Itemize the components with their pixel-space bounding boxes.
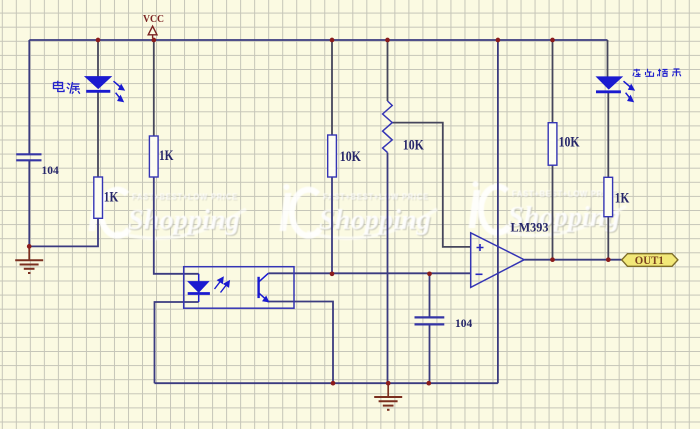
wire R3 column (10K pullup) — [331, 40, 333, 135]
svg-text:1K: 1K — [159, 148, 174, 164]
watermark 1 — [89, 184, 246, 238]
wire cap to ground junction — [28, 161, 30, 246]
svg-text:OUT1: OUT1 — [635, 255, 664, 267]
ground (bottom) — [374, 383, 402, 410]
svg-text:10K: 10K — [340, 149, 361, 165]
optocoupler U2 box — [184, 267, 294, 309]
svg-text:LM393: LM393 — [511, 221, 549, 235]
LED D2 (output indicator) — [596, 77, 622, 92]
junction ground rail / opto emitter — [331, 381, 336, 386]
wire inverting input net — [268, 272, 470, 274]
junction VCC / R2 branch — [151, 38, 156, 43]
junction output / R5 node — [606, 257, 611, 262]
svg-text:10K: 10K — [403, 138, 424, 154]
resistor R4 10K — [548, 123, 557, 166]
resistor R2 1K — [149, 136, 158, 177]
resistor R1 1K — [94, 177, 103, 218]
junction VCC / R4 branch — [550, 38, 555, 43]
wire comparator output — [524, 259, 622, 261]
wire cap C2 column — [429, 274, 431, 317]
port OUT1 — [622, 254, 678, 267]
junction VCC / RP1 branch — [385, 38, 390, 43]
wire pot wiper to non-inverting input — [392, 123, 471, 247]
watermark 2 — [280, 184, 437, 238]
junction ground rail / C2 bottom — [426, 381, 431, 386]
optocoupler U2 LED emission arrows — [215, 278, 230, 293]
junction VCC / U1 supply branch — [496, 38, 501, 43]
capacitor C1 104 — [16, 154, 41, 160]
power VCC symbol — [148, 26, 157, 38]
wire pot column top — [387, 40, 389, 101]
wire ground junction to R1 bottom — [29, 218, 98, 246]
op-amp U1 LM393 — [471, 233, 525, 288]
label 电源 — [54, 81, 80, 94]
optocoupler U2 LED — [188, 274, 210, 302]
svg-text:VCC: VCC — [143, 14, 164, 25]
wire opto cathode return — [155, 302, 199, 383]
op-amp plus input mark — [477, 244, 484, 251]
junction R3 / opto collector node — [330, 271, 335, 276]
svg-text:104: 104 — [455, 318, 473, 330]
wire bottom rail — [155, 382, 498, 384]
wire left column (cap branch) — [28, 40, 30, 154]
junction ground rail / RP1 bottom — [386, 381, 391, 386]
svg-text:104: 104 — [42, 165, 60, 177]
LED D1 (power indicator) — [85, 77, 111, 92]
wire VCC top rail — [29, 39, 607, 41]
ground (left) — [15, 246, 43, 273]
wire R2 column to opto anode — [153, 40, 155, 136]
junction VCC / LED1 branch — [96, 38, 101, 43]
resistor R3 10K — [328, 135, 337, 177]
junction C1 / ground node — [27, 244, 32, 249]
wire comparator supply column — [497, 40, 499, 383]
svg-text:1K: 1K — [615, 191, 630, 207]
watermark 3 — [469, 181, 626, 235]
optocoupler U2 phototransistor — [259, 273, 269, 302]
wire LED2 column — [607, 40, 609, 78]
svg-text:10K: 10K — [559, 135, 580, 151]
wire R4 column (10K to output) — [552, 40, 554, 123]
junction output / R4 node — [550, 257, 555, 262]
LED D2 emission arrows — [624, 81, 634, 101]
potentiometer RP1 10K — [383, 101, 393, 153]
wire LED1 column — [97, 40, 99, 78]
junction VCC / R3 branch — [330, 38, 335, 43]
svg-text:1K: 1K — [104, 190, 119, 206]
junction inverting input / C2 node — [427, 271, 432, 276]
resistor R5 1K — [604, 177, 613, 216]
capacitor C2 104 — [415, 317, 445, 324]
LED D1 emission arrows — [114, 81, 124, 101]
op-amp minus input mark — [476, 273, 483, 275]
wire opto emitter to bottom rail — [267, 302, 333, 384]
wire pot column bottom — [387, 153, 389, 384]
label 输出指示 — [633, 69, 681, 77]
